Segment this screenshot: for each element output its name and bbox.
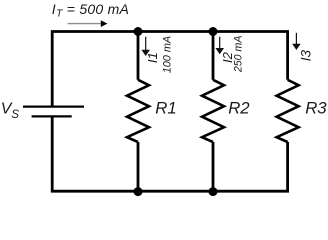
svg-text:I1: I1 <box>145 52 160 63</box>
svg-text:R2: R2 <box>228 99 250 118</box>
svg-text:R3: R3 <box>305 99 327 118</box>
svg-text:R1: R1 <box>155 99 176 118</box>
svg-text:IT = 500 mA: IT = 500 mA <box>52 1 129 20</box>
svg-text:I3: I3 <box>299 50 314 62</box>
svg-text:250 mA: 250 mA <box>233 36 245 73</box>
svg-text:100 mA: 100 mA <box>161 36 173 74</box>
svg-text:VS: VS <box>1 101 20 121</box>
